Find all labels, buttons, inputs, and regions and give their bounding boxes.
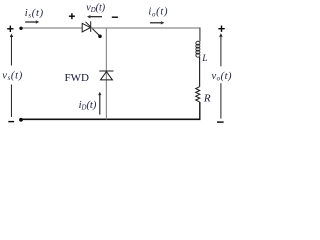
polarity plus (v_D)	[69, 13, 75, 19]
polarity minus (v_D)	[112, 16, 118, 18]
wire FWD branch	[105, 28, 107, 119]
svg-text:is(t): is(t)	[25, 8, 44, 20]
svg-text:iD(t): iD(t)	[79, 100, 97, 112]
svg-text:vo(t): vo(t)	[212, 71, 233, 83]
svg-text:R: R	[203, 92, 211, 104]
source polarity plus	[7, 26, 13, 32]
source voltage arrow v_s	[10, 36, 12, 117]
resistor R	[196, 87, 200, 102]
voltage arrow v_D (points left)	[89, 16, 102, 18]
node bottom-left terminal	[19, 118, 23, 122]
svg-text:L: L	[201, 54, 207, 64]
svg-text:vD(t): vD(t)	[86, 2, 105, 14]
output polarity minus	[217, 121, 224, 123]
wire top-right segment	[91, 27, 201, 29]
wire right branch middle	[199, 57, 201, 87]
svg-text:FWD: FWD	[65, 72, 90, 84]
current arrow i_s	[25, 21, 37, 23]
current arrow i_o	[150, 22, 162, 24]
node gate dot	[98, 35, 102, 39]
source polarity minus	[8, 121, 14, 123]
current arrow i_D	[99, 94, 101, 114]
output polarity plus	[218, 26, 224, 32]
node top-left terminal	[19, 27, 22, 30]
svg-text:vs(t): vs(t)	[2, 70, 23, 82]
svg-text:io(t): io(t)	[148, 7, 168, 19]
wire top-left segment	[21, 27, 82, 29]
wire right branch upper	[199, 28, 201, 42]
output voltage arrow v_o	[220, 36, 222, 119]
diode FWD	[99, 71, 113, 80]
wire bottom	[21, 118, 200, 120]
diode D (top, with switch-arm and gate dot)	[82, 21, 99, 35]
inductor L	[196, 41, 200, 57]
wire right branch lower	[199, 102, 201, 120]
